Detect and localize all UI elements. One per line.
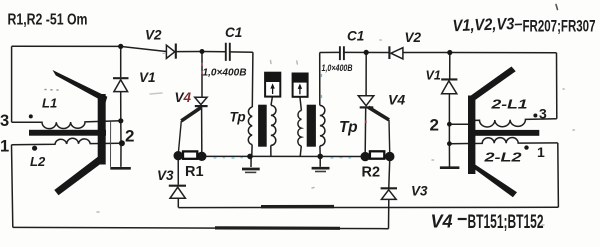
output box left bbox=[265, 72, 281, 96]
wire left rail vertical top bbox=[11, 46, 13, 122]
diode V3 right bbox=[381, 187, 397, 189]
terminator bar right bbox=[440, 166, 460, 169]
svg-text:V3: V3 bbox=[157, 168, 174, 183]
transformer Tp right secondary bbox=[300, 97, 302, 157]
svg-text:V4: V4 bbox=[175, 90, 192, 105]
junction dot rail left bbox=[247, 154, 253, 160]
junction dot top V4 right bbox=[364, 50, 369, 55]
wire bottom rail 1 bbox=[178, 206, 558, 208]
svg-text:V1: V1 bbox=[426, 69, 441, 83]
label BT151;BT152 bbox=[458, 218, 467, 220]
wire bottom rail 2 bbox=[13, 227, 389, 228]
resistor R2 right dot bbox=[385, 152, 394, 161]
yoke left vertical bar bbox=[98, 94, 106, 165]
yoke right bottom diagonal bbox=[470, 165, 518, 198]
transformer Tp right ground stub bbox=[319, 156, 321, 166]
yoke left core bar bbox=[29, 130, 106, 136]
svg-text:3: 3 bbox=[539, 106, 547, 122]
diode V2 right bbox=[388, 46, 390, 59]
core transformer Tp right bbox=[307, 105, 316, 147]
svg-text:1: 1 bbox=[537, 144, 545, 160]
wire bottom rail 1 thick segment bbox=[261, 205, 334, 208]
svg-text:V3: V3 bbox=[411, 184, 428, 199]
thyristor V4 right bbox=[358, 96, 374, 106]
polarity dot 2-L1 bbox=[533, 114, 537, 118]
core transformer Tp left bbox=[258, 105, 267, 147]
diode V1 left bbox=[113, 77, 129, 79]
wire V1 right branch bbox=[448, 53, 450, 167]
svg-text:V2: V2 bbox=[145, 28, 162, 43]
wire V3 left branch bbox=[177, 156, 179, 208]
svg-text:L1: L1 bbox=[42, 96, 57, 111]
capacitor C1 right bbox=[340, 46, 344, 60]
yoke right top diagonal bbox=[471, 67, 516, 101]
svg-text:FR207;FR307: FR207;FR307 bbox=[523, 16, 596, 35]
wire V4 right cathode to R2 bbox=[364, 107, 367, 152]
junction dot top V1 left bbox=[118, 44, 123, 49]
svg-text:Тр: Тр bbox=[230, 110, 246, 125]
svg-text:3: 3 bbox=[0, 112, 9, 130]
svg-text:V1,V2,V3–: V1,V2,V3– bbox=[452, 15, 523, 35]
svg-text:R1,R2 -51 Om: R1,R2 -51 Om bbox=[8, 11, 88, 28]
node 1 left terminal wire with inductor L2 bbox=[12, 138, 122, 144]
output box right bbox=[292, 73, 308, 97]
wire center ground rail bbox=[249, 155, 365, 157]
resistor R1 body bbox=[183, 151, 197, 158]
junction dot rail right bbox=[317, 154, 323, 160]
scan noise specks bbox=[45, 5, 574, 226]
polarity dot 2-L2 bbox=[524, 145, 528, 149]
svg-text:C1: C1 bbox=[347, 29, 364, 44]
node 3 left terminal wire with inductor L1 bbox=[12, 121, 121, 129]
diode V3 left bbox=[169, 185, 186, 187]
wire bottom rail 2 thick segment bbox=[215, 226, 340, 230]
transformer Tp right primary bbox=[319, 53, 322, 157]
resistor R2 body bbox=[370, 151, 384, 158]
junction dot right coil lower bbox=[447, 141, 452, 146]
svg-text:2: 2 bbox=[430, 116, 439, 135]
diode V1 right bbox=[441, 78, 457, 80]
svg-text:C1: C1 bbox=[225, 25, 242, 40]
node 1 right wire with inductor 2-L2 bbox=[474, 138, 558, 144]
wire V4 right branch bbox=[365, 52, 367, 95]
wire R1 to ground rail bbox=[202, 155, 249, 157]
capacitor C1 left bbox=[226, 43, 230, 61]
junction dot top V1 right bbox=[447, 50, 452, 55]
junction dot left coil upper bbox=[118, 118, 123, 123]
svg-text:R2: R2 bbox=[362, 165, 381, 181]
svg-text:2-L1: 2-L1 bbox=[490, 98, 527, 112]
wire top rail right section bbox=[320, 51, 557, 53]
svg-text:V2: V2 bbox=[405, 30, 422, 45]
gate V4 right bbox=[368, 107, 389, 120]
junction dot top V4 left bbox=[200, 49, 205, 54]
junction dot left coil lower bbox=[119, 140, 125, 146]
resistor R1 right dot bbox=[197, 152, 206, 161]
yoke right core bar bbox=[469, 130, 539, 136]
transformer Tp left ground stub bbox=[250, 156, 252, 167]
svg-text:V4: V4 bbox=[431, 212, 453, 232]
wire V1 left branch bbox=[120, 46, 122, 166]
ground right bbox=[312, 167, 330, 170]
wire left stub bbox=[110, 122, 112, 167]
svg-text:L2: L2 bbox=[30, 154, 46, 169]
gate V4 left bbox=[181, 107, 201, 121]
polarity dot L2 bbox=[32, 146, 37, 151]
svg-text:2-L2: 2-L2 bbox=[483, 150, 522, 164]
wire 1 right down to bottom rail 1 bbox=[557, 143, 560, 207]
svg-text:1,0×400В: 1,0×400В bbox=[322, 63, 353, 74]
svg-text:1,0×400В: 1,0×400В bbox=[203, 67, 247, 79]
resistor R1 left dot bbox=[174, 151, 183, 160]
svg-text:R1: R1 bbox=[185, 164, 204, 180]
wire top rail left section bbox=[12, 46, 253, 52]
node 3 right wire with inductor 2-L1 bbox=[474, 119, 557, 127]
wire node 2 right lower bbox=[449, 143, 469, 145]
wire node 2 right upper bbox=[449, 123, 469, 125]
transformer Tp left secondary bbox=[271, 97, 273, 157]
polarity dot L1 bbox=[29, 114, 33, 118]
yoke left bottom diagonal bbox=[54, 156, 105, 196]
wire left rail vertical bottom bbox=[12, 145, 13, 228]
wire V4 left branch bbox=[201, 52, 203, 97]
svg-text:BT151;BT152: BT151;BT152 bbox=[468, 212, 544, 233]
svg-text:2: 2 bbox=[125, 127, 134, 146]
junction dot right coil upper bbox=[447, 122, 452, 127]
svg-text:1: 1 bbox=[0, 138, 9, 156]
thyristor V4 left bbox=[195, 97, 207, 104]
wire 3 right up to top rail bbox=[556, 53, 558, 119]
svg-text:Тр: Тр bbox=[339, 119, 358, 136]
wire V4 left cathode to R1 bbox=[201, 106, 203, 152]
svg-text:V1: V1 bbox=[139, 70, 156, 85]
yoke right vertical bar bbox=[468, 96, 475, 175]
svg-text:V4: V4 bbox=[388, 92, 405, 108]
transformer Tp left primary bbox=[252, 52, 253, 156]
yoke left top diagonal bbox=[53, 70, 108, 103]
ground left bbox=[242, 168, 260, 171]
resistor R2 left dot bbox=[361, 152, 370, 161]
diode V2 left bbox=[166, 45, 174, 58]
wire V3 right branch bbox=[389, 161, 390, 229]
terminator bar left bbox=[110, 167, 131, 170]
